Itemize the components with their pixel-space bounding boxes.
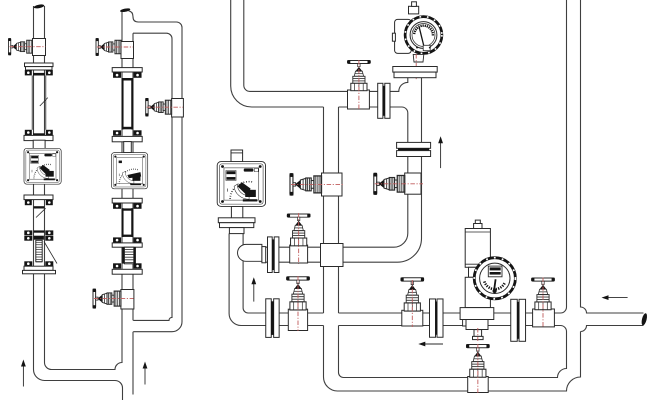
flange pair above meter FM2: [113, 130, 121, 135]
flow meter FM3: [217, 162, 265, 207]
gauge PG1 stem: [413, 54, 424, 62]
flange pair above sight glass: [24, 230, 32, 235]
PRV bottom stub: [474, 330, 482, 337]
collar to flange FA: [262, 247, 266, 263]
centerline V10: [411, 280, 413, 327]
flange below V2: [112, 68, 142, 72]
pipe end break (right inlet): [641, 313, 648, 326]
valve body block on assembly2 top: [121, 42, 134, 59]
meter stub: [33, 140, 45, 148]
break tick assembly1 upper tube: [40, 98, 48, 106]
centerline V1: [10, 46, 46, 48]
break tick assembly1 lower tube: [36, 208, 46, 217]
needle valve V2 (assembly2 top): [96, 38, 121, 56]
flange pair FF (PRV outlet): [511, 299, 518, 341]
tube end caps assembly1 upper: [33, 73, 45, 76]
wire assembly2 top branch inner wall + pipe3 left wall: [133, 33, 172, 320]
cross fitting run A x pipe B: [321, 244, 344, 267]
PRV bottom section: [466, 320, 488, 330]
leader tick assembly1 bottom: [44, 242, 57, 264]
PRV lower body: [465, 277, 490, 307]
wire right riser right wall + main run top right: [581, 0, 644, 313]
flange pair FD on gauge pipe: [397, 142, 431, 148]
heavy tube wall assembly2 mid: [122, 208, 124, 237]
flow arrow left (inlet line): [607, 297, 628, 299]
centerline V5: [298, 213, 300, 264]
needle valve V3 (assembly2 bottom): [93, 289, 121, 309]
centerline V11: [542, 278, 544, 329]
pressure gauge PG1 housing: [395, 19, 412, 53]
gauge PG1 dial: [405, 17, 442, 54]
wire assembly1 right wall + low run + assembly2 left wall: [45, 6, 123, 370]
PRV top cap: [474, 224, 482, 229]
meter stub fm2: [124, 142, 132, 153]
tube outer wall assembly1 upper right: [45, 76, 47, 130]
pressure regulator PRV body: [463, 311, 475, 326]
flange pair below FM3: [218, 218, 255, 223]
PG2 label box: [488, 266, 502, 277]
centerline V12: [477, 344, 479, 393]
flange pair above sight glass assembly2: [113, 237, 121, 242]
flange pair FB (main run left): [266, 299, 272, 338]
valve body block on bypass pipe: [172, 99, 184, 118]
needle valve V12 (bottom run): [466, 344, 489, 377]
PRV top stub: [475, 220, 480, 224]
flow arrow left (below main run): [423, 343, 443, 345]
wire center riser left wall + header H1 bottom wall: [231, 0, 408, 143]
housing tab left: [392, 33, 395, 41]
flange pair FC (header H1): [378, 83, 383, 118]
PRV spring housing: [465, 229, 490, 268]
flange below sight glass: [24, 261, 32, 266]
flange pair above meter FM1: [25, 130, 32, 135]
gauge PG1 label box: [423, 45, 430, 50]
flow meter FM1: [24, 148, 61, 184]
regulator gauge PG2 dial: [474, 258, 515, 299]
needle valve V5 (run A): [287, 214, 310, 246]
wire fillet cross bottom-right + main run bottom right: [581, 326, 644, 332]
flange below sight glass assembly2: [113, 263, 121, 268]
flange pair below PG1: [393, 67, 437, 73]
tube end caps assembly1 lower: [34, 206, 45, 208]
tee block V8 on header H1: [348, 90, 370, 109]
sight glass tube assembly1: [36, 240, 42, 261]
needle valve V1 (assembly1 top): [8, 38, 32, 55]
needle valve V10 (main run before PRV): [401, 278, 424, 311]
heavy tube wall assembly2 upper: [122, 78, 124, 130]
gauge top tab: [409, 6, 419, 14]
tube end caps assembly2 upper: [122, 78, 133, 81]
flange pair FE (PRV inlet): [430, 299, 436, 337]
valve body block on assembly2 bottom: [121, 290, 134, 310]
wire assembly2 top branch outer wall + pipe3 right wall: [129, 11, 183, 332]
centerline V7: [291, 183, 344, 185]
centerline V3: [94, 298, 134, 300]
valve body block V7 on pipe B: [322, 173, 343, 196]
pipe end cap assembly2: [120, 8, 131, 13]
wire center riser right wall + header H1 top wall: [244, 0, 408, 91]
valve body block V9 on gauge pipe: [405, 173, 421, 194]
centerline V2: [97, 46, 133, 48]
needle valve V9 (gauge pipe): [373, 173, 404, 195]
PRV bottom cap: [473, 336, 484, 339]
PRV pipe section: [460, 308, 494, 320]
PRV neck: [469, 267, 488, 277]
centerline V4: [147, 106, 183, 108]
sight glass tube assembly2: [124, 247, 133, 264]
needle valve V8 (header H1): [347, 60, 370, 90]
flange pair FA (run A left): [268, 237, 273, 273]
flow arrow up (assembly2 outlet): [144, 367, 146, 385]
wire pipe B left wall + bottom run H3 bottom wall + right riser outer elbow: [323, 107, 580, 391]
flow arrow up (gauge pipe): [440, 141, 442, 168]
wire gauge pipe right wall + run A bottom wall: [266, 78, 422, 263]
valve body block V6 on main run: [288, 309, 307, 330]
centerline V6: [297, 276, 299, 331]
tee boss fitting to run A: [238, 244, 262, 261]
flow arrow up (bottom left): [22, 365, 24, 387]
centerline V8: [358, 60, 360, 110]
valve body block V11 on main run: [533, 309, 555, 327]
pipe end cap assembly1: [33, 4, 44, 9]
centerline PG1 stem: [415, 54, 417, 81]
valve body block V12 on bottom run: [468, 377, 489, 393]
needle valve V7 (pipe B): [290, 173, 322, 195]
needle valve V4 (bypass pipe): [145, 98, 171, 116]
wire meter drop left wall + main run bottom wall: [229, 234, 560, 326]
flange below meter FM1: [24, 195, 53, 200]
wire assembly1 left wall + bottom elbow: [34, 6, 123, 400]
meter FM3 bottom stub: [231, 206, 242, 218]
tube end caps assembly2 mid: [122, 208, 132, 210]
valve body block V5 on run A: [290, 245, 308, 263]
gauge top stub: [412, 2, 417, 7]
valve body block V10 on main run: [402, 310, 423, 326]
wire assembly2 right wall: [132, 33, 134, 394]
collar below FM3 flange: [229, 228, 244, 234]
centerline PRV stub: [477, 328, 479, 341]
centerline V9: [375, 183, 423, 185]
needle valve V6 (main run): [286, 277, 309, 310]
tube outer wall assembly1 upper left: [31, 76, 33, 130]
flange pair below V1: [25, 63, 54, 67]
flow meter FM2: [111, 153, 147, 189]
valve body block on assembly1: [33, 39, 46, 56]
flange below meter FM2: [112, 198, 142, 203]
flow arrow up (meter drop): [253, 282, 255, 301]
wire gauge pipe left wall + run A top wall: [266, 156, 408, 247]
meter FM3 top stub with cap: [231, 150, 243, 162]
wire meter drop right wall + main run top wall + right riser left wall: [243, 0, 566, 313]
needle valve V11 (main run after PRV): [531, 278, 554, 310]
wire pipe B right wall + bottom run H3 top wall: [339, 107, 567, 378]
